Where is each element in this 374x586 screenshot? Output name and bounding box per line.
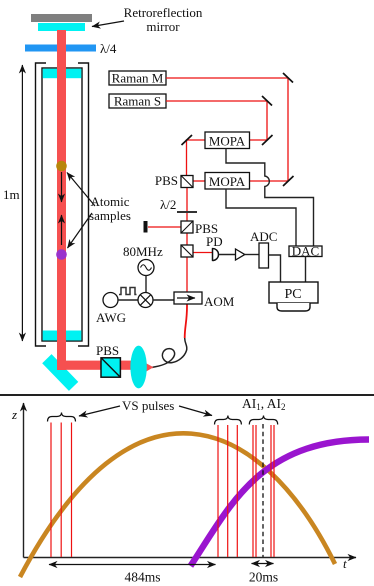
mirror at Raman S bend (262, 96, 272, 106)
vacuum tube outer bracket left (36, 63, 47, 346)
fiber coupling lens (cyan) (130, 346, 146, 389)
svg-text:20ms: 20ms (249, 570, 278, 585)
80MHz oscillator circle (138, 260, 154, 276)
VS pulse group 1 (red lines) (50, 423, 52, 558)
AI pulse pair 1 (red lines) (252, 425, 254, 557)
dashed timing line (262, 424, 264, 557)
20ms interval arrow (252, 563, 274, 565)
svg-text:PBS: PBS (155, 173, 178, 188)
beam dump (144, 221, 148, 233)
PBS1 cube (181, 176, 193, 188)
DAC box (289, 246, 322, 257)
wire: PD to amplifier (219, 254, 236, 256)
svg-text:1m: 1m (3, 187, 20, 202)
svg-text:PD: PD (206, 234, 223, 249)
wire: vertical beam (main red beam in tube) (57, 30, 66, 370)
wire: MOPA1 output to fold mirror (187, 140, 206, 176)
svg-text:PBS: PBS (96, 343, 119, 358)
wire: MOPA2 RF cable to DAC (226, 189, 296, 246)
svg-text:Retroreflection: Retroreflection (124, 5, 203, 20)
vacuum tube body (42, 68, 82, 341)
retroreflection mirror coating (cyan) (38, 23, 85, 31)
focused beam cone from lens (141, 361, 154, 375)
PBS2 cube (181, 221, 193, 233)
wire: mixer to AOM (153, 299, 174, 301)
wire: Raman S output beam (166, 101, 267, 140)
PBS cube at fiber launch (101, 358, 120, 377)
svg-text:mirror: mirror (146, 19, 180, 34)
svg-text:ADC: ADC (250, 229, 277, 244)
wire: beam down from PBS1 through half-wave plate to PBS2 (186, 187, 188, 222)
svg-text:t: t (343, 556, 347, 571)
Raman S laser box (109, 94, 166, 108)
svg-text:Raman S: Raman S (114, 94, 161, 109)
mirror left of MOPA1 (182, 135, 193, 145)
wire: Raman M output beam (166, 78, 288, 181)
wire: ADC to PC (269, 255, 281, 282)
svg-text:VS pulses: VS pulses (122, 398, 174, 413)
484ms interval arrow (49, 564, 216, 566)
svg-text:AOM: AOM (204, 294, 235, 309)
wire: MOPA2 output to PBS (193, 180, 205, 182)
trajectory: second atomic cloud (purple parabola) (191, 440, 370, 567)
arrow: VS pulses to group 2 (179, 406, 212, 416)
PC base (277, 303, 310, 311)
1m double arrow (21, 65, 23, 341)
wire: amplifier to ADC (245, 254, 259, 256)
arrow: label to lower sample (68, 213, 93, 248)
svg-text:z: z (11, 407, 17, 422)
svg-text:DAC: DAC (292, 244, 319, 259)
svg-text:MOPA: MOPA (209, 134, 246, 149)
trajectory: first atomic cloud (gold parabola) (20, 433, 335, 577)
arrow: label to upper sample (67, 173, 95, 207)
AWG pulse waveform glyph (119, 288, 137, 295)
mirror lower right (283, 176, 294, 186)
arrow: upward velocity to lower sample (61, 215, 63, 245)
wire: AOM output bending to fiber (185, 297, 187, 338)
tube top window (cyan) (43, 69, 82, 79)
tube bottom window (cyan) (43, 331, 82, 341)
AWG circle (103, 293, 118, 308)
z axis (23, 403, 25, 558)
PBS3 cube (181, 245, 193, 257)
AOM box (174, 292, 202, 304)
atomic sample upper (gold dot) (56, 161, 67, 172)
svg-text:484ms: 484ms (124, 570, 160, 585)
wire: horizontal beam to fiber coupler (57, 361, 133, 370)
svg-text:AI1, AI2: AI1, AI2 (242, 396, 286, 412)
optical fiber pigtail (152, 338, 187, 368)
mirror: lower-left cyan fold mirror (42, 354, 78, 391)
brace over group 1 (48, 413, 76, 422)
mirror at top right (283, 73, 293, 83)
wire: PBS3 down to AOM (186, 257, 188, 298)
AI pulse pair 2 (red lines) (270, 425, 272, 557)
svg-text:λ/4: λ/4 (100, 41, 117, 56)
arrow: downward velocity from upper sample (61, 172, 63, 202)
svg-text:80MHz: 80MHz (123, 244, 163, 259)
vacuum tube outer bracket right (78, 63, 89, 346)
wire: AWG to mixer (118, 299, 138, 301)
wire: MOPA1 RF cable to DAC (with hop over beam) (226, 149, 314, 247)
brace over group 2 (215, 416, 242, 425)
svg-text:λ/2: λ/2 (160, 197, 176, 212)
svg-text:PC: PC (284, 287, 301, 302)
svg-text:samples: samples (89, 208, 131, 223)
atomic sample lower (purple dot) (56, 249, 67, 260)
svg-text:MOPA: MOPA (209, 174, 246, 189)
svg-text:AWG: AWG (96, 310, 126, 325)
wire: PBS3 to photodiode (193, 252, 212, 254)
Raman M laser box (109, 71, 166, 85)
PC box (269, 282, 318, 303)
half-wave plate (177, 211, 197, 213)
arrow: VS pulses to group 1 (79, 406, 120, 416)
arrow: label to mirror (92, 21, 124, 27)
VS pulse group 2 (red lines) (217, 425, 219, 557)
lambda/4 plate (25, 45, 96, 52)
separator line between panels (0, 394, 374, 396)
wire: PBS2 rejected beam to dump (148, 226, 182, 228)
wire: PBS2 to PBS3 (186, 233, 188, 246)
amplifier triangle (236, 249, 245, 260)
wire: oscillator to mixer (145, 276, 147, 294)
svg-text:Raman M: Raman M (112, 71, 164, 86)
retroreflection mirror (gray substrate) (31, 14, 92, 22)
brace over AI pulses (249, 416, 277, 425)
photodiode PD (213, 249, 219, 261)
mirror below (S beam to MOPA) (262, 135, 273, 145)
t axis (24, 557, 357, 559)
mixer (138, 293, 153, 308)
MOPA 1 box (205, 132, 250, 149)
MOPA 2 box (205, 173, 250, 190)
wire: DAC to PC (305, 257, 307, 283)
ADC box (259, 243, 269, 268)
svg-text:Atomic: Atomic (91, 194, 130, 209)
